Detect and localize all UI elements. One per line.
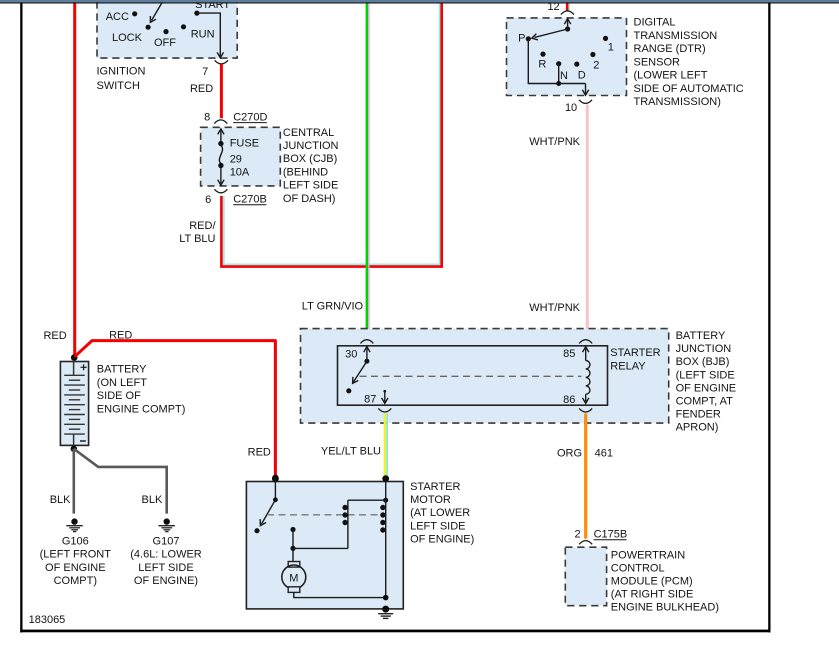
svg-text:OF ENGINE: OF ENGINE	[676, 382, 737, 394]
svg-text:MODULE (PCM): MODULE (PCM)	[611, 576, 693, 588]
fuse terminal dot lower	[218, 163, 223, 168]
wire BLK battery to G106	[73, 449, 76, 514]
svg-text:BATTERY: BATTERY	[97, 364, 147, 376]
ground G106	[66, 518, 82, 531]
starter hold-in coil	[342, 500, 348, 548]
svg-text:10A: 10A	[230, 167, 250, 179]
svg-text:R: R	[538, 59, 546, 71]
starter motor brush upper	[288, 562, 300, 568]
svg-text:RED: RED	[190, 83, 213, 95]
DTR output arrow pin 10	[582, 84, 588, 96]
frame left border	[20, 2, 22, 632]
node red feed entry dot	[272, 475, 279, 482]
relay pin 86 connector arc	[579, 408, 592, 412]
ignition switch contact dot ACC	[132, 11, 137, 16]
svg-text:30: 30	[345, 348, 357, 360]
starter contact wire	[292, 530, 294, 549]
frame right border	[768, 2, 770, 632]
ignition switch contact dot OFF	[163, 29, 168, 34]
starter pull-in coil bumps	[380, 505, 385, 533]
svg-text:OFF: OFF	[154, 37, 176, 49]
relay contact dot	[346, 388, 351, 393]
svg-text:OF ENGINE): OF ENGINE)	[410, 534, 474, 546]
svg-text:FENDER: FENDER	[676, 409, 721, 421]
DTR position dot R	[540, 52, 545, 57]
battery symbol	[60, 362, 88, 446]
DTR wiper pivot dot	[565, 26, 570, 31]
svg-text:RED/: RED/	[189, 220, 216, 232]
svg-text:BLK: BLK	[50, 494, 71, 506]
svg-text:IGNITION: IGNITION	[97, 66, 146, 78]
svg-text:2: 2	[593, 60, 599, 72]
svg-text:BOX (BJB): BOX (BJB)	[676, 356, 730, 368]
DTR position dot P	[526, 36, 531, 41]
svg-text:(AT RIGHT SIDE: (AT RIGHT SIDE	[611, 589, 694, 601]
node battery negative junction	[71, 446, 77, 452]
ignition switch contact dot START	[194, 11, 199, 16]
svg-text:(BEHIND: (BEHIND	[283, 166, 328, 178]
fuse 29 10A element	[218, 129, 224, 185]
battery top terminal stub	[73, 362, 75, 376]
svg-text:POWERTRAIN: POWERTRAIN	[611, 550, 685, 562]
DTR input arrow from pin 12	[564, 19, 570, 29]
svg-text:183065: 183065	[29, 614, 66, 626]
svg-text:(LEFT FRONT: (LEFT FRONT	[40, 549, 112, 561]
svg-text:STARTER: STARTER	[410, 481, 460, 493]
svg-text:(AT LOWER: (AT LOWER	[410, 507, 470, 519]
svg-text:RED: RED	[109, 329, 132, 341]
svg-text:STARTER: STARTER	[610, 347, 660, 359]
starter motor M wire upper	[292, 548, 294, 561]
svg-text:WHT/PNK: WHT/PNK	[529, 302, 580, 314]
wire LT GRN/VIO (green)	[366, 2, 369, 338]
svg-text:LEFT SIDE: LEFT SIDE	[138, 562, 193, 574]
pin 12 connector arc	[561, 11, 574, 15]
DTR position dot 2	[590, 52, 595, 57]
wire RED/LT BLU from CJB pin6 (red)	[221, 3, 441, 266]
svg-text:(ON LEFT: (ON LEFT	[97, 377, 147, 389]
relay pin 30 arrow	[364, 347, 370, 361]
frame bottom border	[20, 630, 770, 633]
svg-text:SENSOR: SENSOR	[634, 56, 681, 68]
svg-text:RED: RED	[248, 447, 271, 459]
ignition switch START output wire to pin 7	[197, 13, 224, 58]
pin 10 connector arc	[579, 100, 592, 104]
svg-text:D: D	[578, 70, 586, 82]
svg-text:(LEFT SIDE: (LEFT SIDE	[676, 369, 735, 381]
relay pin 85 connector arc	[579, 340, 592, 344]
wire YEL/LT BLU (lt blu stripe)	[386, 414, 388, 481]
wire WHT/PNK DTR pin10 to relay pin85	[586, 105, 589, 339]
svg-text:YEL/LT BLU: YEL/LT BLU	[321, 446, 381, 458]
DTR position dot N	[556, 61, 561, 66]
node starter ground junction	[383, 595, 389, 601]
starter switch pivot dot	[273, 497, 278, 502]
wire RED/LT BLU from CJB pin6 (lt blu stripe)	[224, 3, 440, 264]
battery bottom terminal stub	[73, 434, 75, 445]
svg-text:RED: RED	[43, 330, 66, 342]
central junction box CJB	[201, 127, 281, 186]
relay pin 30 connector arc	[360, 340, 373, 344]
svg-text:ORG: ORG	[557, 448, 582, 460]
relay pin 87 arrow	[382, 391, 388, 403]
svg-text:ACC: ACC	[106, 11, 129, 23]
wire ORG relay pin86 to PCM	[584, 414, 587, 539]
svg-text:SIDE OF: SIDE OF	[97, 390, 141, 402]
powertrain control module box	[565, 547, 606, 606]
pin 7 connector arc	[215, 60, 228, 64]
svg-text:2: 2	[574, 529, 580, 541]
wire contact junction to hold coil	[293, 547, 348, 549]
svg-text:COMPT, AT: COMPT, AT	[676, 396, 734, 408]
svg-text:G107: G107	[153, 536, 180, 548]
svg-text:10: 10	[565, 102, 577, 114]
starter case ground dot	[382, 606, 389, 613]
svg-text:(LOWER LEFT: (LOWER LEFT	[634, 70, 708, 82]
svg-text:LEFT SIDE: LEFT SIDE	[410, 520, 465, 532]
wire coil top link	[348, 499, 386, 501]
svg-text:DIGITAL: DIGITAL	[634, 17, 676, 29]
svg-text:P: P	[518, 33, 525, 45]
starter relay box	[338, 346, 608, 405]
battery junction box BJB	[301, 329, 669, 424]
starter moving contact dot	[290, 527, 295, 532]
fuse terminal dot upper	[218, 141, 223, 146]
svg-text:C270B: C270B	[233, 193, 267, 205]
node solenoid top junction	[383, 498, 388, 503]
starter mechanical dashed link	[267, 514, 382, 516]
svg-text:461: 461	[595, 448, 613, 460]
svg-text:RANGE (DTR): RANGE (DTR)	[634, 43, 706, 55]
svg-text:RELAY: RELAY	[610, 360, 646, 372]
relay mechanical dashed link	[360, 375, 582, 377]
svg-text:MOTOR: MOTOR	[410, 494, 451, 506]
svg-text:G106: G106	[62, 536, 89, 548]
svg-text:WHT/PNK: WHT/PNK	[529, 136, 580, 148]
ignition switch contact dot RUN	[181, 24, 186, 29]
digital transmission range sensor box	[507, 18, 627, 96]
DTR N stub wire	[558, 64, 560, 84]
wire BLK battery to G107	[74, 449, 167, 514]
svg-text:LT GRN/VIO: LT GRN/VIO	[302, 301, 364, 313]
svg-text:OF DASH): OF DASH)	[283, 193, 336, 205]
relay pin 85 arrow	[583, 347, 589, 361]
svg-text:CONTROL: CONTROL	[611, 563, 665, 575]
svg-text:C270D: C270D	[233, 111, 267, 123]
svg-text:LOCK: LOCK	[112, 32, 143, 44]
node starter feed junction	[272, 475, 279, 482]
ignition switch contact dot LOCK	[146, 25, 151, 30]
svg-text:BLK: BLK	[142, 494, 163, 506]
svg-text:OF ENGINE): OF ENGINE)	[134, 575, 198, 587]
svg-text:LEFT SIDE: LEFT SIDE	[283, 180, 338, 192]
relay pin 87 connector arc	[378, 408, 391, 412]
DTR position dot 1	[603, 36, 608, 41]
svg-text:BATTERY: BATTERY	[676, 330, 726, 342]
svg-text:JUNCTION: JUNCTION	[676, 343, 732, 355]
svg-text:FUSE: FUSE	[230, 138, 259, 150]
top window bar	[0, 0, 839, 2]
relay armature pivot dot	[364, 359, 369, 364]
svg-text:7: 7	[202, 66, 208, 78]
svg-text:OF ENGINE: OF ENGINE	[45, 562, 106, 574]
svg-text:APRON): APRON)	[676, 422, 719, 434]
starter motor brush lower	[288, 587, 300, 593]
node solenoid feed entry dot	[382, 475, 389, 482]
battery minus mark	[80, 440, 86, 442]
wire RED ignition pin7 to CJB pin8	[220, 64, 223, 118]
starter motor M circle	[282, 565, 306, 589]
svg-text:8: 8	[204, 111, 210, 123]
battery plates	[64, 375, 85, 434]
svg-text:85: 85	[563, 348, 575, 360]
starter switch fixed contact dot	[254, 528, 259, 533]
DTR internal wire P to pin 10	[528, 39, 585, 84]
starter motor return wire	[294, 592, 386, 597]
node starter contact junction	[290, 546, 295, 551]
wire RED battery feed from top	[73, 2, 76, 356]
svg-text:ENGINE COMPT): ENGINE COMPT)	[97, 403, 186, 415]
connector C270D arc	[214, 120, 227, 124]
svg-text:CENTRAL: CENTRAL	[283, 127, 334, 139]
svg-text:87: 87	[364, 393, 376, 405]
svg-text:N: N	[560, 70, 568, 82]
connector C270B arc	[214, 189, 227, 193]
wire RED stub to DTR pin 12	[566, 2, 569, 11]
ignition switch wiper arrow	[150, 0, 164, 22]
wire LT GRN/VIO (violet stripe)	[368, 2, 370, 338]
DTR junction dot on output wire	[556, 81, 561, 86]
svg-text:29: 29	[230, 154, 242, 166]
battery plus mark	[81, 364, 87, 370]
ground G107	[159, 518, 175, 531]
svg-text:TRANSMISSION): TRANSMISSION)	[634, 96, 721, 108]
svg-text:(4.6L: LOWER: (4.6L: LOWER	[130, 549, 202, 561]
svg-text:M: M	[289, 573, 298, 585]
svg-text:COMPT): COMPT)	[54, 575, 97, 587]
svg-text:SIDE OF AUTOMATIC: SIDE OF AUTOMATIC	[634, 83, 744, 95]
starter motor box	[246, 482, 403, 609]
wire RED battery to starter motor	[75, 341, 276, 477]
relay pin 86 arrow	[583, 394, 589, 403]
svg-text:RUN: RUN	[191, 29, 215, 41]
DTR position dot D	[574, 62, 579, 67]
svg-text:BOX (CJB): BOX (CJB)	[283, 153, 337, 165]
starter switch blade arrow	[260, 500, 275, 526]
svg-text:C175B: C175B	[594, 529, 628, 541]
relay pin 87 dot	[383, 390, 386, 393]
svg-text:SWITCH: SWITCH	[97, 80, 140, 92]
svg-text:6: 6	[205, 194, 211, 206]
relay coil	[586, 361, 590, 395]
DTR wiper arrow to P	[532, 29, 568, 40]
svg-text:1: 1	[608, 41, 614, 53]
starter pull-in coil line	[385, 481, 387, 597]
starter case ground bars	[378, 614, 393, 619]
ignition switch box	[97, 0, 237, 58]
wire YEL/LT BLU relay pin87 to starter (yellow)	[384, 414, 387, 481]
svg-text:86: 86	[563, 394, 575, 406]
connector C175B arc	[579, 541, 592, 545]
svg-text:ENGINE BULKHEAD): ENGINE BULKHEAD)	[611, 602, 719, 614]
svg-text:TRANSMISSION: TRANSMISSION	[634, 30, 718, 42]
starter switch stem	[274, 479, 276, 500]
svg-text:JUNCTION: JUNCTION	[283, 140, 339, 152]
node battery positive junction	[71, 354, 78, 361]
svg-text:LT BLU: LT BLU	[179, 233, 215, 245]
relay armature arm arrow	[353, 361, 367, 383]
